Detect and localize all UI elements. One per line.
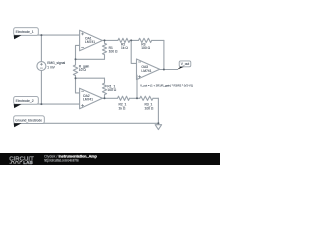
svg-text:10 Ω: 10 Ω — [79, 68, 87, 72]
svg-text:LM741: LM741 — [83, 98, 93, 102]
svg-text:LM741: LM741 — [141, 69, 151, 73]
svg-text:LAB: LAB — [23, 160, 33, 165]
svg-text:LM741: LM741 — [85, 40, 95, 44]
svg-text:100 Ω: 100 Ω — [141, 46, 150, 50]
svg-text:100 Ω: 100 Ω — [109, 50, 118, 54]
svg-text:Ground_Electrode: Ground_Electrode — [15, 118, 42, 122]
svg-text:100 Ω: 100 Ω — [107, 88, 116, 92]
svg-text:1k Ω: 1k Ω — [121, 46, 128, 50]
svg-text:Electrode_2: Electrode_2 — [16, 99, 34, 103]
svg-text:1 mV: 1 mV — [47, 65, 55, 69]
svg-text:Electrode_1: Electrode_1 — [16, 30, 34, 34]
svg-text:100 Ω: 100 Ω — [145, 106, 154, 110]
svg-text:V_out = (1 + 2R1/R_gain) * R3/: V_out = (1 + 2R1/R_gain) * R3/R2 * (V2-V… — [140, 83, 193, 87]
svg-text:1k Ω: 1k Ω — [119, 106, 126, 110]
svg-text:http://circuitlab.com/c4m87hh: http://circuitlab.com/c4m87hh — [44, 159, 79, 163]
svg-text:V_out: V_out — [181, 62, 189, 66]
